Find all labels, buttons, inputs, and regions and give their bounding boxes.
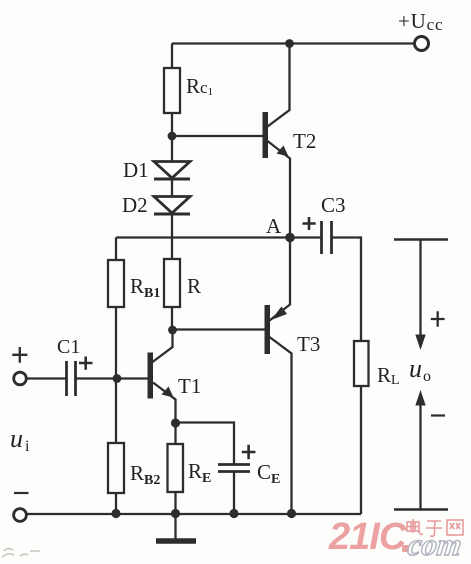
svg-text:RB2: RB2 [130, 461, 160, 488]
svg-text:ui: ui [10, 424, 30, 455]
svg-text:D2: D2 [122, 193, 148, 217]
svg-text:Rc1: Rc1 [186, 74, 213, 98]
svg-text:RE: RE [188, 459, 211, 486]
svg-text:C3: C3 [321, 193, 346, 217]
svg-text:RB1: RB1 [130, 274, 160, 301]
svg-text:C1: C1 [57, 336, 80, 358]
svg-text:RL: RL [377, 363, 400, 388]
svg-text:CE: CE [257, 460, 280, 487]
svg-text:T3: T3 [297, 332, 320, 356]
svg-text:D1: D1 [123, 158, 149, 182]
svg-text:+Ucc: +Ucc [398, 9, 443, 34]
svg-text:uo: uo [409, 354, 431, 385]
svg-text:A: A [266, 214, 282, 238]
svg-text:T1: T1 [178, 374, 201, 398]
svg-text:T2: T2 [293, 129, 316, 153]
svg-text:R: R [187, 274, 201, 298]
